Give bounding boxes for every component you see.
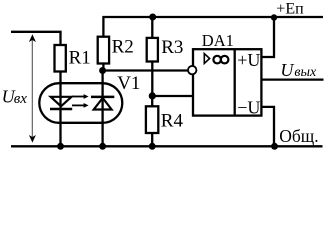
svg-text:V1: V1 [117,73,140,94]
svg-text:R3: R3 [161,37,183,58]
svg-text:R2: R2 [112,36,134,57]
svg-text:U: U [280,60,294,80]
svg-text:+Еп: +Еп [276,1,304,18]
svg-text:DA1: DA1 [202,31,234,50]
svg-text:Общ.: Общ. [279,126,318,146]
svg-text:R4: R4 [161,110,184,131]
svg-text:вых: вых [294,65,317,80]
svg-text:вх: вх [14,91,28,107]
svg-text:R1: R1 [69,47,91,68]
svg-text:−U: −U [237,97,260,117]
svg-text:+U: +U [237,50,260,70]
